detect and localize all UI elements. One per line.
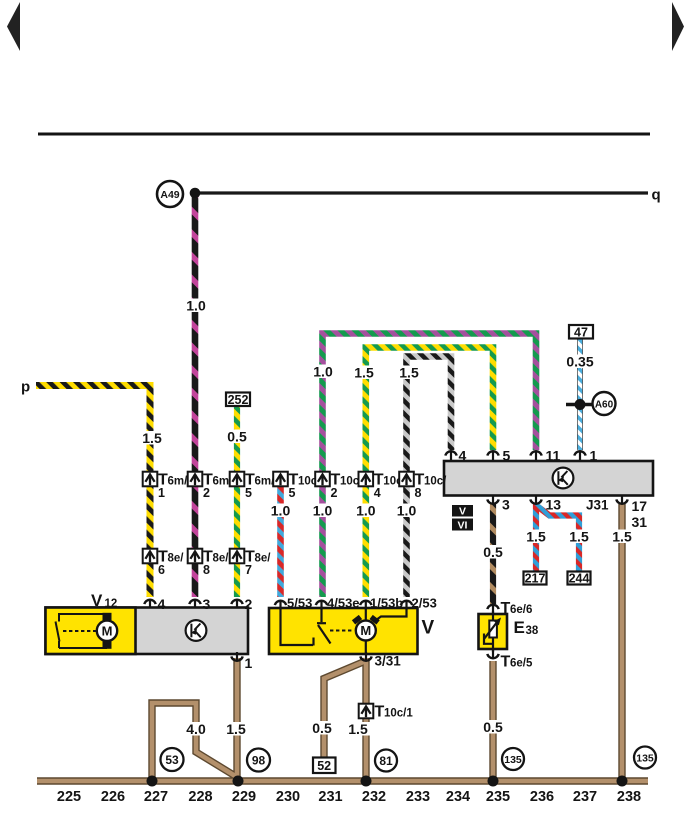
terminal 252 <box>226 393 250 408</box>
svg-text:1.5: 1.5 <box>142 430 162 446</box>
label 1.5 244 wire <box>567 530 591 544</box>
label 0.5 252 wire <box>225 430 249 444</box>
svg-text:4.0: 4.0 <box>186 721 206 737</box>
svg-text:1: 1 <box>245 655 253 671</box>
wire pin13 blue/red to 217 <box>533 504 539 572</box>
pin 13 K box bottom <box>530 495 541 505</box>
wire A49 black/magenta <box>192 195 199 597</box>
pin 1/53b <box>360 600 371 610</box>
svg-text:1: 1 <box>158 486 165 500</box>
svg-text:5: 5 <box>289 486 296 500</box>
svg-text:238: 238 <box>617 789 641 805</box>
label 1.0 A49 wire <box>184 299 208 313</box>
connector T10c/4 <box>359 472 407 501</box>
svg-text:3: 3 <box>203 596 211 612</box>
ground 53 <box>161 748 184 771</box>
wiper motor box V <box>269 608 418 654</box>
terminal 217 <box>524 572 547 586</box>
V12 internals <box>56 613 108 648</box>
nav arrow left <box>7 2 20 51</box>
svg-text:5: 5 <box>503 448 511 464</box>
svg-text:p: p <box>21 379 30 396</box>
svg-text:1: 1 <box>590 448 598 464</box>
current track V box <box>452 505 473 518</box>
connector T6m/5 <box>230 472 275 501</box>
svg-text:229: 229 <box>232 789 256 805</box>
svg-text:10c/1: 10c/1 <box>384 708 413 720</box>
svg-text:226: 226 <box>101 789 125 805</box>
svg-text:J31: J31 <box>586 498 609 513</box>
svg-text:6e/6: 6e/6 <box>510 604 532 616</box>
svg-text:1.0: 1.0 <box>313 503 333 519</box>
header rule <box>38 133 650 136</box>
connector T10c/8 <box>399 472 447 501</box>
ground bus rail <box>37 504 648 781</box>
svg-text:2: 2 <box>331 486 338 500</box>
current track VI box <box>452 519 473 532</box>
svg-text:A49: A49 <box>160 189 179 201</box>
svg-text:3/31: 3/31 <box>375 654 402 669</box>
svg-text:1.5: 1.5 <box>354 365 374 381</box>
pin 1 left box bottom <box>231 652 242 662</box>
wire 5/53 red/blue <box>277 487 284 597</box>
svg-text:1.5: 1.5 <box>569 529 589 545</box>
svg-text:1.0: 1.0 <box>313 364 333 380</box>
svg-text:13: 13 <box>546 497 562 513</box>
svg-text:225: 225 <box>57 789 81 805</box>
svg-text:47: 47 <box>574 326 588 340</box>
svg-text:4: 4 <box>459 448 467 464</box>
svg-text:98: 98 <box>252 754 266 768</box>
svg-text:8e/: 8e/ <box>255 553 272 565</box>
connector T6m/2 <box>188 472 233 501</box>
svg-text:V: V <box>91 591 103 610</box>
left combined box grey part <box>46 608 249 655</box>
ground 98 <box>247 749 270 772</box>
svg-text:A60: A60 <box>595 399 614 410</box>
label 1.0 2/53 <box>395 504 419 518</box>
svg-text:4/53e: 4/53e <box>327 596 360 611</box>
svg-text:E: E <box>514 618 525 637</box>
svg-text:237: 237 <box>573 789 597 805</box>
pin 2 left box <box>231 599 242 609</box>
pin 4 K box <box>445 450 456 460</box>
label 1.5 217 wire <box>524 530 548 544</box>
svg-text:236: 236 <box>530 789 554 805</box>
svg-text:T: T <box>375 704 385 721</box>
svg-text:11: 11 <box>546 448 561 464</box>
svg-text:1.5: 1.5 <box>226 721 246 737</box>
svg-text:2: 2 <box>203 486 210 500</box>
svg-text:4: 4 <box>158 596 166 612</box>
svg-text:31: 31 <box>632 514 648 530</box>
svg-text:235: 235 <box>486 789 510 805</box>
label 0.5 pin3 wire <box>481 545 505 559</box>
label 1.0 4/53e <box>311 504 335 518</box>
svg-text:V: V <box>422 618 435 639</box>
terminal 47 <box>569 325 593 340</box>
motor V12 yellow part <box>46 608 136 655</box>
pin 5/53 <box>275 600 286 610</box>
connector T10c/1 <box>359 704 414 721</box>
svg-text:135: 135 <box>504 754 522 766</box>
svg-text:1.0: 1.0 <box>397 503 417 519</box>
svg-text:234: 234 <box>446 789 470 805</box>
svg-text:12: 12 <box>105 598 118 610</box>
svg-text:V: V <box>459 506 466 518</box>
svg-text:232: 232 <box>362 789 386 805</box>
svg-text:0.5: 0.5 <box>483 544 503 560</box>
svg-text:8: 8 <box>415 486 422 500</box>
svg-text:2/53: 2/53 <box>412 596 437 611</box>
pin 1 K box <box>574 450 585 460</box>
label 1.5 31 wire <box>346 722 370 736</box>
svg-text:233: 233 <box>406 789 430 805</box>
terminal 244 <box>568 572 591 586</box>
pin 3 K box bottom <box>487 495 498 505</box>
control unit box K right <box>444 461 653 496</box>
label 1.0 1/53b <box>354 504 378 518</box>
wire T10c/2 loop green/purple to pin11 <box>323 334 537 598</box>
svg-text:3: 3 <box>502 497 510 513</box>
label 4.0 loop <box>184 722 208 736</box>
svg-text:252: 252 <box>228 393 249 407</box>
svg-text:1.5: 1.5 <box>612 529 632 545</box>
wire p yellow/black <box>36 386 150 598</box>
pin 2/53 <box>401 600 412 610</box>
sender E38 <box>492 611 494 652</box>
wire 47 white/blue <box>577 339 583 451</box>
svg-text:81: 81 <box>379 754 393 768</box>
wire 252 yellow/green <box>234 407 240 598</box>
label 0.5 E38 wire <box>481 720 505 734</box>
ground 81 <box>375 750 397 772</box>
connector T10c/2 <box>315 472 363 501</box>
svg-text:7: 7 <box>245 563 252 577</box>
pin 4 left box <box>144 599 155 609</box>
svg-text:230: 230 <box>276 789 300 805</box>
wire T10c/4 loop yellow/green to pin5 <box>366 348 493 598</box>
svg-text:5/53: 5/53 <box>287 596 312 611</box>
wire T10c/8 loop grey/black to pin4 <box>407 357 452 598</box>
svg-text:1.0: 1.0 <box>271 503 291 519</box>
svg-text:2: 2 <box>245 596 253 612</box>
svg-text:0.5: 0.5 <box>227 429 247 445</box>
svg-text:217: 217 <box>525 572 546 586</box>
node A60 junction <box>566 403 593 407</box>
ground 135 left <box>502 748 524 770</box>
connector T8e/8 <box>188 549 230 578</box>
connector T6m/1 <box>143 472 188 501</box>
label 1.5 pin1 wire <box>224 722 248 736</box>
label 0.35 47 wire <box>565 355 595 369</box>
wire q <box>195 191 648 194</box>
label 0.5 52 wire <box>310 721 334 735</box>
pin 4/53e <box>316 600 327 610</box>
node A60 circle <box>593 392 616 415</box>
nav arrow right <box>672 2 684 51</box>
label 1.0 gp loop <box>311 365 335 379</box>
svg-text:8e/: 8e/ <box>213 553 230 565</box>
svg-text:52: 52 <box>317 759 331 773</box>
label 1.5 yg loop <box>352 366 376 380</box>
svg-text:135: 135 <box>636 752 654 764</box>
label 1.5 gb loop <box>397 366 421 380</box>
svg-text:1.0: 1.0 <box>186 298 206 314</box>
svg-text:0.35: 0.35 <box>566 354 593 370</box>
svg-text:M: M <box>102 624 113 639</box>
label 1.0 5/53 <box>269 504 293 518</box>
svg-text:1.0: 1.0 <box>356 503 376 519</box>
pin 17 K box bottom <box>616 495 627 505</box>
connector T8e/7 <box>230 549 272 578</box>
svg-text:227: 227 <box>144 789 168 805</box>
svg-text:T: T <box>501 600 511 617</box>
pin 11 K box <box>530 450 541 460</box>
svg-text:M: M <box>360 623 371 638</box>
terminal 52 <box>313 758 336 774</box>
svg-text:53: 53 <box>165 753 179 767</box>
svg-text:0.5: 0.5 <box>312 720 332 736</box>
pin 3 left box <box>189 599 200 609</box>
svg-text:T: T <box>501 654 511 671</box>
svg-text:8e/: 8e/ <box>168 553 185 565</box>
svg-text:10c/: 10c/ <box>424 476 447 488</box>
pin 5 K box <box>487 450 498 460</box>
pin T6e/5 <box>487 650 498 660</box>
svg-text:0.5: 0.5 <box>483 719 503 735</box>
node A49 circle <box>157 181 183 207</box>
svg-text:244: 244 <box>569 572 590 586</box>
svg-text:6m/: 6m/ <box>168 476 189 488</box>
svg-text:8: 8 <box>203 563 210 577</box>
connector T8e/6 <box>143 549 185 578</box>
svg-text:6: 6 <box>158 563 165 577</box>
ground 135 right <box>634 747 656 769</box>
svg-text:38: 38 <box>526 625 539 637</box>
svg-text:VI: VI <box>458 519 468 531</box>
svg-text:5: 5 <box>245 486 252 500</box>
pin 3/31 <box>360 652 371 662</box>
svg-text:17: 17 <box>632 498 648 514</box>
svg-text:6m/: 6m/ <box>255 476 276 488</box>
svg-text:4: 4 <box>374 486 381 500</box>
svg-text:231: 231 <box>318 789 342 805</box>
svg-text:q: q <box>652 187 661 204</box>
svg-text:1/53b: 1/53b <box>370 596 403 611</box>
ground junctions <box>147 776 158 787</box>
connector T10c/5 <box>273 472 321 501</box>
svg-text:1.5: 1.5 <box>526 529 546 545</box>
wire pin13 blue/red to 244 <box>537 506 579 572</box>
svg-text:228: 228 <box>188 789 212 805</box>
label 1.5 J31 wire <box>610 530 634 544</box>
svg-text:6e/5: 6e/5 <box>510 658 533 670</box>
svg-text:1.5: 1.5 <box>348 721 368 737</box>
label 1.5 p wire <box>140 431 164 445</box>
svg-text:1.5: 1.5 <box>399 365 419 381</box>
wire pin3 black/tan <box>490 504 496 604</box>
pin T6e/6 <box>487 604 498 614</box>
node A49 junction <box>190 188 201 199</box>
